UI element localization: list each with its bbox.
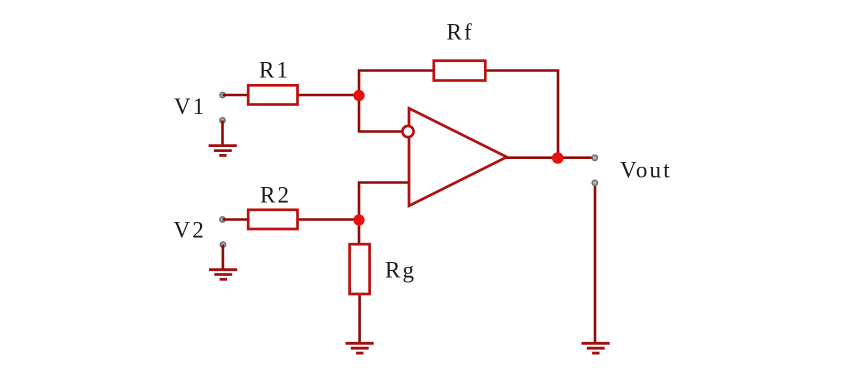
wire node B down to Rg xyxy=(358,220,361,244)
wire node A down to inverting input xyxy=(359,95,402,132)
op-amp inverting input bubble xyxy=(402,126,413,137)
svg-text:V1: V1 xyxy=(174,94,207,119)
wire V2 lower terminal to ground xyxy=(222,245,225,270)
svg-text:V2: V2 xyxy=(174,218,207,243)
wire R2 to node B xyxy=(297,218,359,221)
wire Rf right down to node C xyxy=(485,71,558,159)
node A junction dot xyxy=(353,90,364,101)
wire node A up to Rf left xyxy=(359,71,434,97)
wire V1 terminal to R1 xyxy=(223,94,249,97)
svg-text:Rf: Rf xyxy=(447,20,474,45)
resistor R2 xyxy=(248,210,297,229)
resistor Rf xyxy=(434,61,486,81)
ground under Vout xyxy=(582,343,610,353)
terminal V1 - xyxy=(220,118,225,123)
terminal V2 - xyxy=(220,242,225,247)
svg-text:Vout: Vout xyxy=(620,158,672,183)
terminal Vout - xyxy=(592,180,597,185)
terminal Vout + xyxy=(592,155,597,160)
op-amp U1 xyxy=(409,108,507,206)
terminal V2 + xyxy=(220,217,225,222)
wire node B up to non-inverting input xyxy=(359,183,409,221)
resistor Rg xyxy=(350,244,370,294)
resistor R1 xyxy=(248,85,297,104)
svg-text:Rg: Rg xyxy=(385,258,416,283)
svg-text:R2: R2 xyxy=(260,183,291,208)
ground under V1 xyxy=(209,146,237,156)
wire R1 to node A xyxy=(297,94,359,97)
wire Rg bottom to ground xyxy=(358,294,361,344)
wire op-amp output to Vout terminal xyxy=(506,156,594,159)
ground under Rg xyxy=(346,343,374,353)
node B junction dot xyxy=(353,214,364,225)
terminal V1 + xyxy=(220,92,225,97)
wire Vout lower terminal to ground xyxy=(594,184,597,344)
ground under V2 xyxy=(209,270,237,280)
wire V2 terminal to R2 xyxy=(223,218,250,221)
wire V1 lower terminal to ground xyxy=(221,120,224,146)
svg-text:R1: R1 xyxy=(259,58,290,83)
node C junction dot xyxy=(552,152,564,164)
